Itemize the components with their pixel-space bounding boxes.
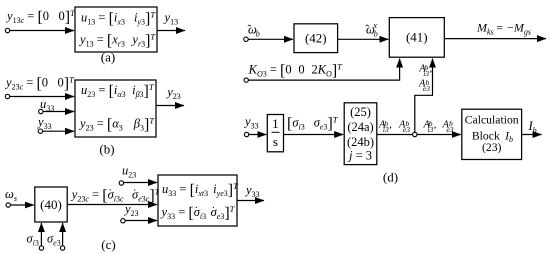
label A_i3^b, A_e3^b right <box>423 119 454 134</box>
svg-text:ωˆbx: ωˆbx <box>365 20 377 39</box>
wire 40 to c-block <box>67 204 157 206</box>
terminal d3 <box>244 132 248 136</box>
wire c out <box>237 200 264 202</box>
wire c2 <box>124 182 157 184</box>
svg-text:(a): (a) <box>101 50 115 65</box>
wire b3 <box>43 130 74 132</box>
wire d3 <box>249 134 266 136</box>
block a <box>75 7 157 52</box>
wire 41 out <box>444 38 546 40</box>
wire calc out <box>522 134 542 136</box>
wire b2 <box>43 111 74 113</box>
svg-text:(d): (d) <box>383 170 398 185</box>
wire d1 <box>248 38 293 40</box>
svg-text:(41): (41) <box>406 30 428 45</box>
svg-text:(40): (40) <box>40 197 62 212</box>
wire sigma_i3 up <box>40 223 42 246</box>
svg-text:(24a): (24a) <box>347 120 373 134</box>
wire sigma_e3 up <box>62 223 64 246</box>
svg-text:1: 1 <box>272 116 279 131</box>
block calc <box>462 109 522 159</box>
terminal sigma_i3 <box>39 246 43 250</box>
wire a1 <box>10 30 74 32</box>
svg-text:(42): (42) <box>305 31 327 46</box>
node junction <box>413 132 417 136</box>
fraction bar <box>272 131 280 133</box>
block 42 <box>294 24 338 53</box>
terminal c3 <box>121 219 125 223</box>
wire s to 25 <box>284 134 344 136</box>
svg-text:(c): (c) <box>101 237 115 252</box>
terminal d1 <box>244 37 248 41</box>
block 41 <box>389 18 444 58</box>
terminal a1 <box>5 28 9 32</box>
terminal b2 <box>39 109 43 113</box>
block 40 <box>35 187 67 222</box>
terminal d2 <box>244 78 248 82</box>
terminal b3 <box>38 129 42 133</box>
terminal sigma_e3 <box>60 246 64 250</box>
block b <box>75 80 156 137</box>
svg-text:(23): (23) <box>482 141 502 154</box>
block c <box>158 175 237 226</box>
svg-text:j = 3: j = 3 <box>347 149 372 163</box>
wire b1 <box>10 96 74 98</box>
label A_i3^b, A_e3^b left <box>378 119 410 134</box>
wire a out <box>157 30 185 32</box>
svg-text:(25): (25) <box>350 105 371 119</box>
block 25-24 <box>344 103 377 165</box>
svg-text:(24b): (24b) <box>347 135 374 149</box>
wire c1 <box>11 204 34 206</box>
wire KO3 to 41 <box>249 59 400 81</box>
terminal c2 <box>119 181 123 185</box>
svg-text:(b): (b) <box>99 142 114 157</box>
wire b out <box>156 105 184 107</box>
terminal c1 <box>6 203 10 207</box>
wire A to 41 <box>415 59 433 133</box>
svg-text:s: s <box>273 134 278 149</box>
wire c3 <box>125 220 157 222</box>
svg-text:Calculation: Calculation <box>465 114 519 127</box>
terminal b1 <box>5 94 9 98</box>
block 1/s <box>267 115 283 152</box>
wire 42 to 41 <box>338 38 389 40</box>
wire 25 to calc <box>377 134 461 136</box>
